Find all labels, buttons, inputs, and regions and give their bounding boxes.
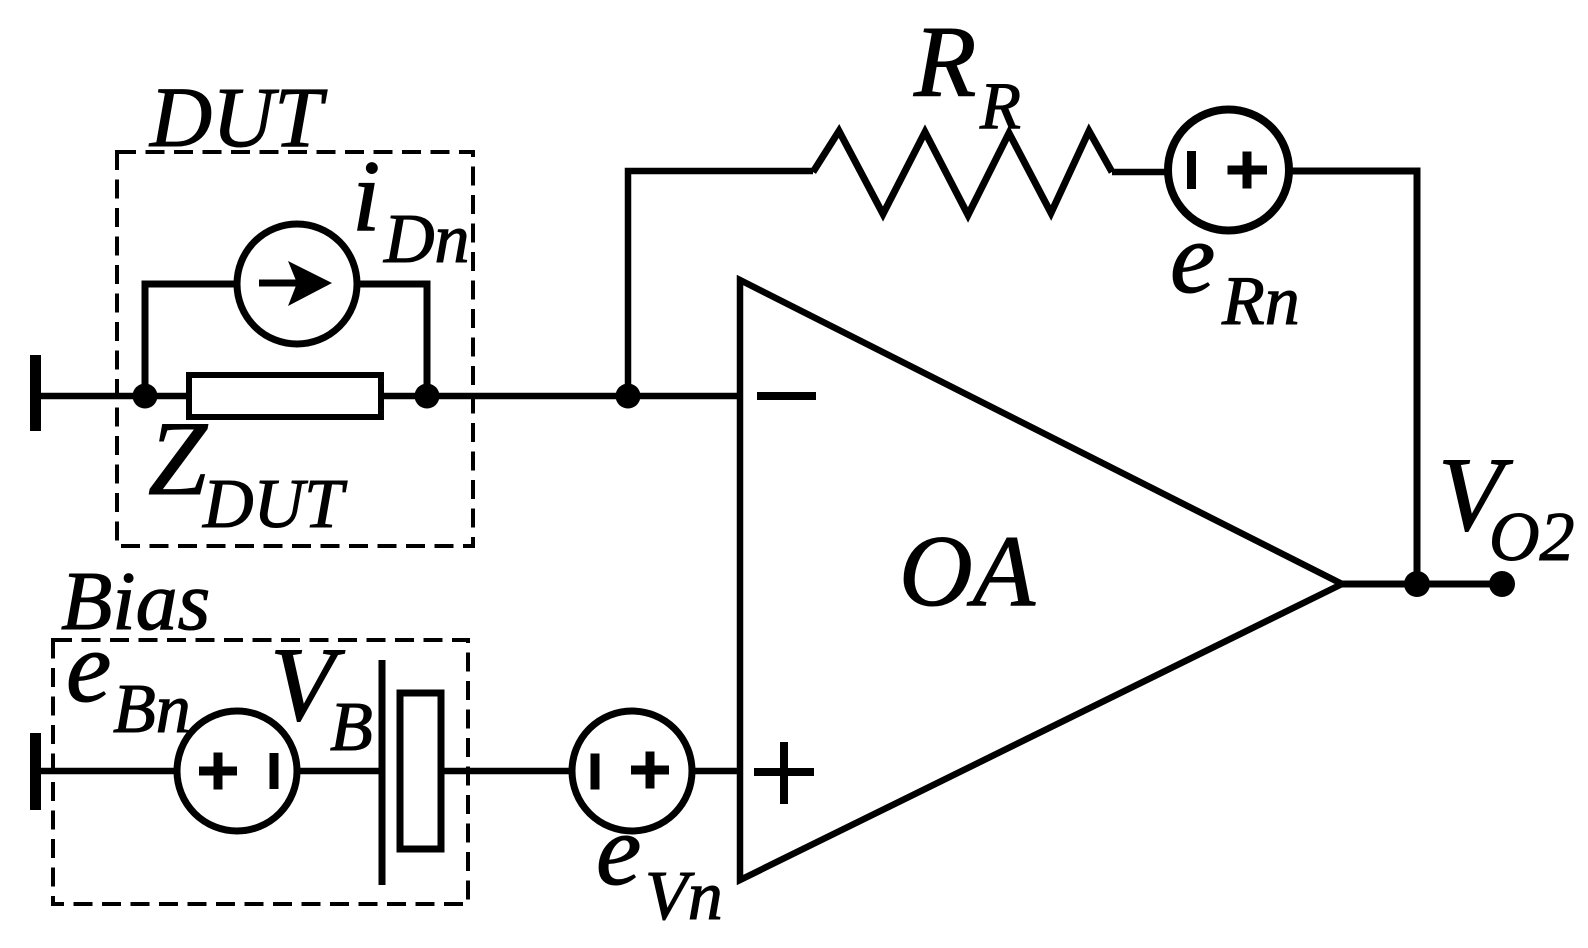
svg-text:B: B	[330, 689, 373, 766]
svg-text:e: e	[66, 611, 111, 724]
svg-text:Vn: Vn	[645, 858, 723, 935]
svg-text:i: i	[352, 140, 380, 253]
svg-text:Dn: Dn	[383, 201, 470, 278]
svg-text:R: R	[913, 6, 976, 119]
svg-text:DUT: DUT	[202, 466, 348, 543]
svg-text:DUT: DUT	[149, 69, 327, 165]
svg-text:O2: O2	[1489, 499, 1575, 576]
svg-text:Bn: Bn	[113, 671, 191, 748]
svg-text:e: e	[596, 794, 641, 907]
svg-text:Rn: Rn	[1221, 263, 1300, 340]
svg-text:R: R	[979, 69, 1021, 143]
svg-text:e: e	[1170, 202, 1215, 315]
svg-text:OA: OA	[899, 515, 1036, 628]
svg-text:Z: Z	[148, 400, 208, 517]
